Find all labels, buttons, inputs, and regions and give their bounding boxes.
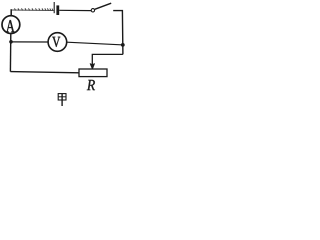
label R — [87, 80, 95, 90]
switch S — [91, 3, 111, 12]
wire switch to top-right corner and down — [113, 11, 123, 55]
rheostat R body — [79, 69, 107, 77]
label 甲 (drawn glyph) — [58, 94, 66, 106]
wire left vertical — [9, 33, 11, 71]
wire ammeter top stub — [10, 9, 12, 16]
node left junction — [9, 40, 13, 44]
wire voltmeter to right junction — [67, 42, 121, 45]
ammeter A — [2, 16, 20, 34]
node right junction — [121, 43, 125, 47]
wire battery to switch — [59, 9, 91, 11]
wire to rheostat wiper — [92, 54, 123, 64]
wire top-left (ammeter to battery) — [11, 8, 53, 11]
wire junction to voltmeter — [11, 41, 48, 43]
wire bottom — [10, 72, 79, 73]
voltmeter V — [48, 33, 67, 52]
rheostat wiper arrowhead — [90, 64, 95, 70]
battery — [54, 2, 58, 15]
